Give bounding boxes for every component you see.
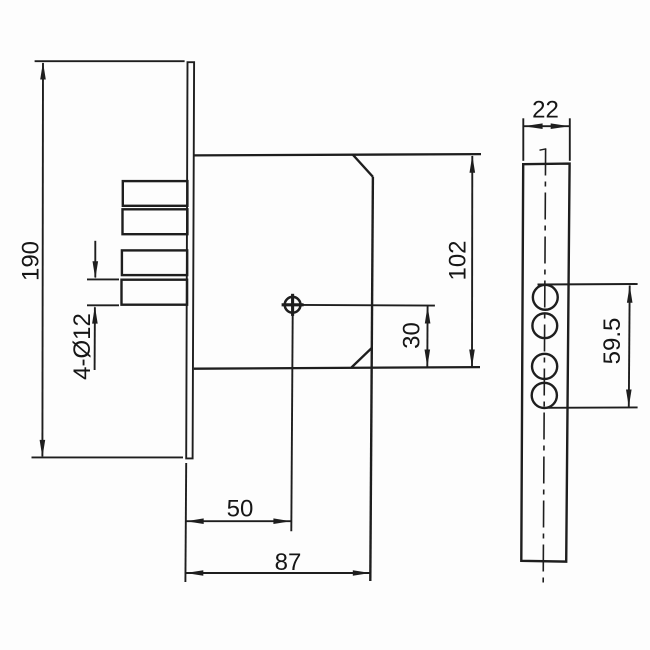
dimension 59.5 bottom extension line: [547, 406, 638, 408]
svg-text:22: 22: [532, 97, 559, 124]
dimension 4-O12 upper leader: [94, 241, 96, 278]
dimension 22 right extension line: [569, 118, 571, 161]
dimension 59.5 top arrow: [627, 285, 633, 303]
dimension 50 left arrow: [186, 518, 204, 524]
dimension 190 line: [41, 63, 44, 456]
dimension 4-O12 lower tick: [87, 304, 119, 306]
dimension 190 top arrow: [40, 62, 46, 80]
dimension 102 line: [471, 156, 473, 367]
side view centerline (dash-dot): [543, 149, 545, 584]
dimension 50 line: [186, 520, 291, 522]
centerline from center mark down (50 dim): [291, 314, 292, 532]
svg-text:59.5: 59.5: [599, 318, 626, 365]
dimension 59.5 top extension line: [538, 283, 638, 286]
hole 1: [533, 285, 558, 310]
centerline from center mark to right (30 dim): [301, 304, 435, 307]
dimension 87 line: [186, 572, 371, 574]
lock body bottom edge with extension to 102 dim: [194, 367, 480, 369]
bolt tab 4: [122, 280, 188, 305]
faceplate (front view, tall thin plate): [186, 62, 194, 458]
lock body top edge with extension to 102 dim: [194, 154, 481, 155]
dimension 4-O12 lower leader: [94, 307, 96, 370]
dimension 59.5 line: [628, 286, 631, 407]
dimension 30 top arrow: [425, 306, 431, 324]
bolt tab 1: [123, 181, 188, 206]
bolt tab 2: [123, 209, 188, 234]
svg-text:50: 50: [227, 496, 254, 523]
center mark cross horizontal: [282, 303, 304, 306]
dimension 190 bottom extension line: [32, 456, 184, 458]
dimension 102 top arrow: [470, 155, 476, 173]
dimension 4-O12 upper arrow (down): [93, 261, 99, 279]
lock body bottom-right chamfer: [351, 348, 371, 368]
lock body right edge with extension down to 87 dim: [370, 177, 373, 581]
dimension 30 line: [426, 306, 428, 367]
hole 4: [532, 383, 557, 408]
side view centerline top tick: [540, 149, 547, 150]
dimension 50 right arrow: [273, 518, 291, 524]
hole 3: [532, 354, 557, 379]
bolt tab 3: [122, 250, 187, 275]
dimension 87 left arrow: [186, 570, 204, 576]
side view plate: [521, 164, 569, 562]
dimension 190 bottom arrow: [40, 440, 46, 458]
lock body top-right chamfer: [353, 155, 373, 177]
center mark circle: [285, 297, 301, 313]
svg-text:102: 102: [445, 240, 472, 280]
svg-text:190: 190: [18, 241, 45, 281]
dimension 22 line: [524, 125, 570, 127]
dimension 102 bottom arrow: [469, 350, 475, 368]
svg-text:4-Ø12: 4-Ø12: [69, 313, 96, 380]
dimension 4-O12 lower arrow (up): [92, 306, 98, 324]
dimension 22 left arrow: [524, 123, 543, 129]
dimension 4-O12 upper tick: [87, 278, 119, 280]
dimension 22 left extension line: [522, 118, 524, 161]
svg-text:87: 87: [275, 549, 302, 576]
dimension 22 right arrow: [551, 123, 570, 129]
dimension 87 right arrow: [353, 570, 371, 576]
dimension 59.5 bottom arrow: [626, 390, 632, 408]
svg-text:30: 30: [399, 322, 426, 349]
dimension 190 top extension line: [35, 60, 185, 62]
dimension 30 bottom arrow: [425, 350, 431, 368]
dimension 50 extension line (from faceplate bottom): [184, 463, 187, 582]
hole 2: [532, 313, 557, 338]
center mark cross vertical: [291, 294, 294, 316]
